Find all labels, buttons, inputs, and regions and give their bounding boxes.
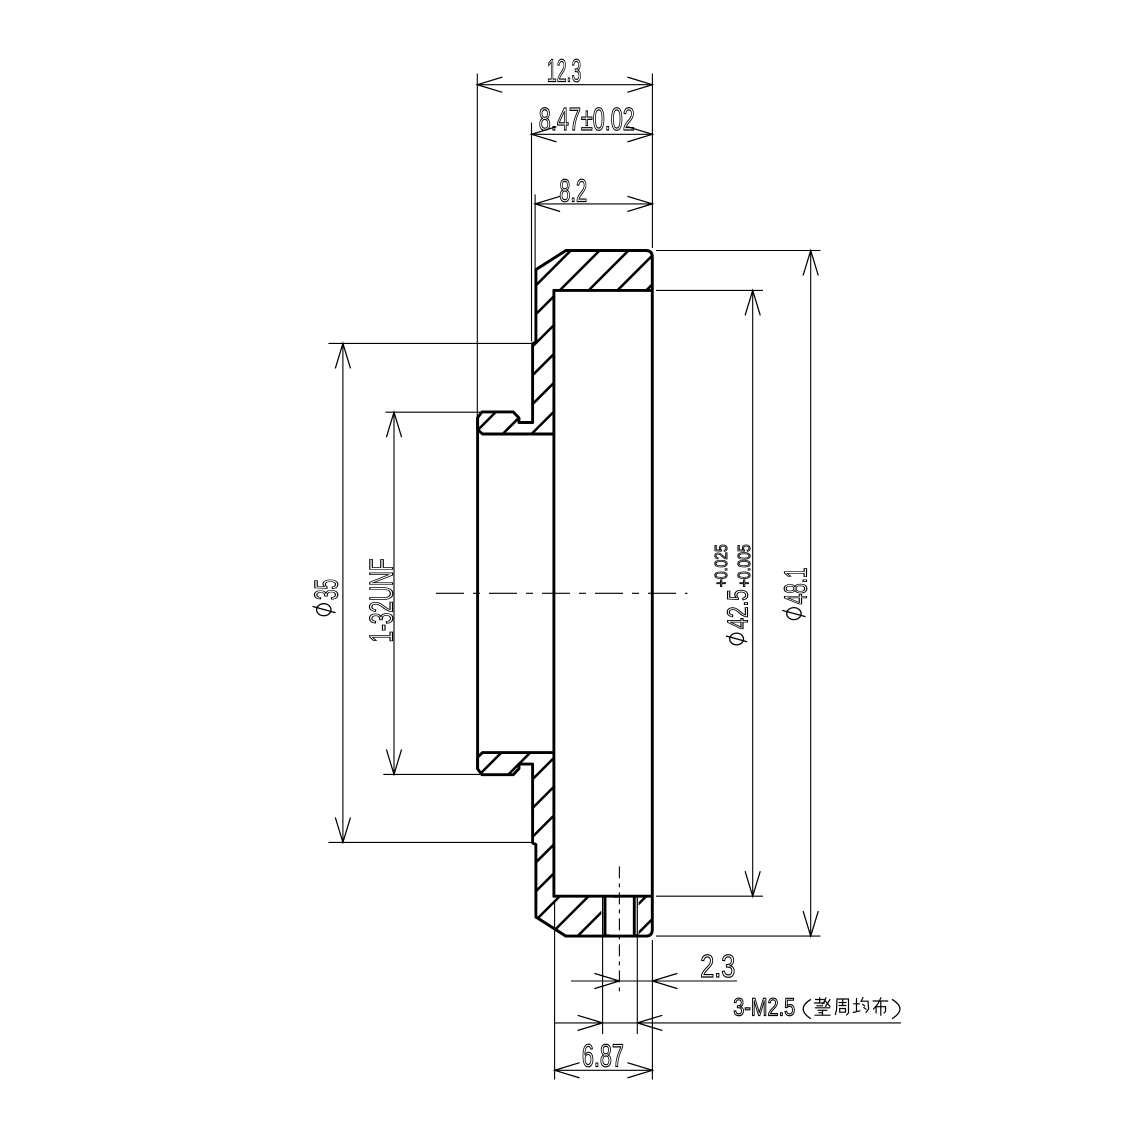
svg-text:+0.025: +0.025 xyxy=(711,544,731,587)
svg-text:3-M2.5: 3-M2.5 xyxy=(733,994,795,1022)
svg-text:6.87: 6.87 xyxy=(582,1038,624,1074)
svg-text:8.2: 8.2 xyxy=(559,173,587,209)
svg-text:12.3: 12.3 xyxy=(547,53,581,89)
svg-text:1-32UNF: 1-32UNF xyxy=(362,559,399,643)
svg-text:35: 35 xyxy=(307,579,344,600)
svg-text:2.3: 2.3 xyxy=(700,948,735,984)
svg-text:8.47±0.02: 8.47±0.02 xyxy=(539,101,635,137)
svg-text:48.1: 48.1 xyxy=(778,568,814,605)
svg-text:42.5: 42.5 xyxy=(723,589,755,629)
svg-text:+0.005: +0.005 xyxy=(734,544,754,587)
